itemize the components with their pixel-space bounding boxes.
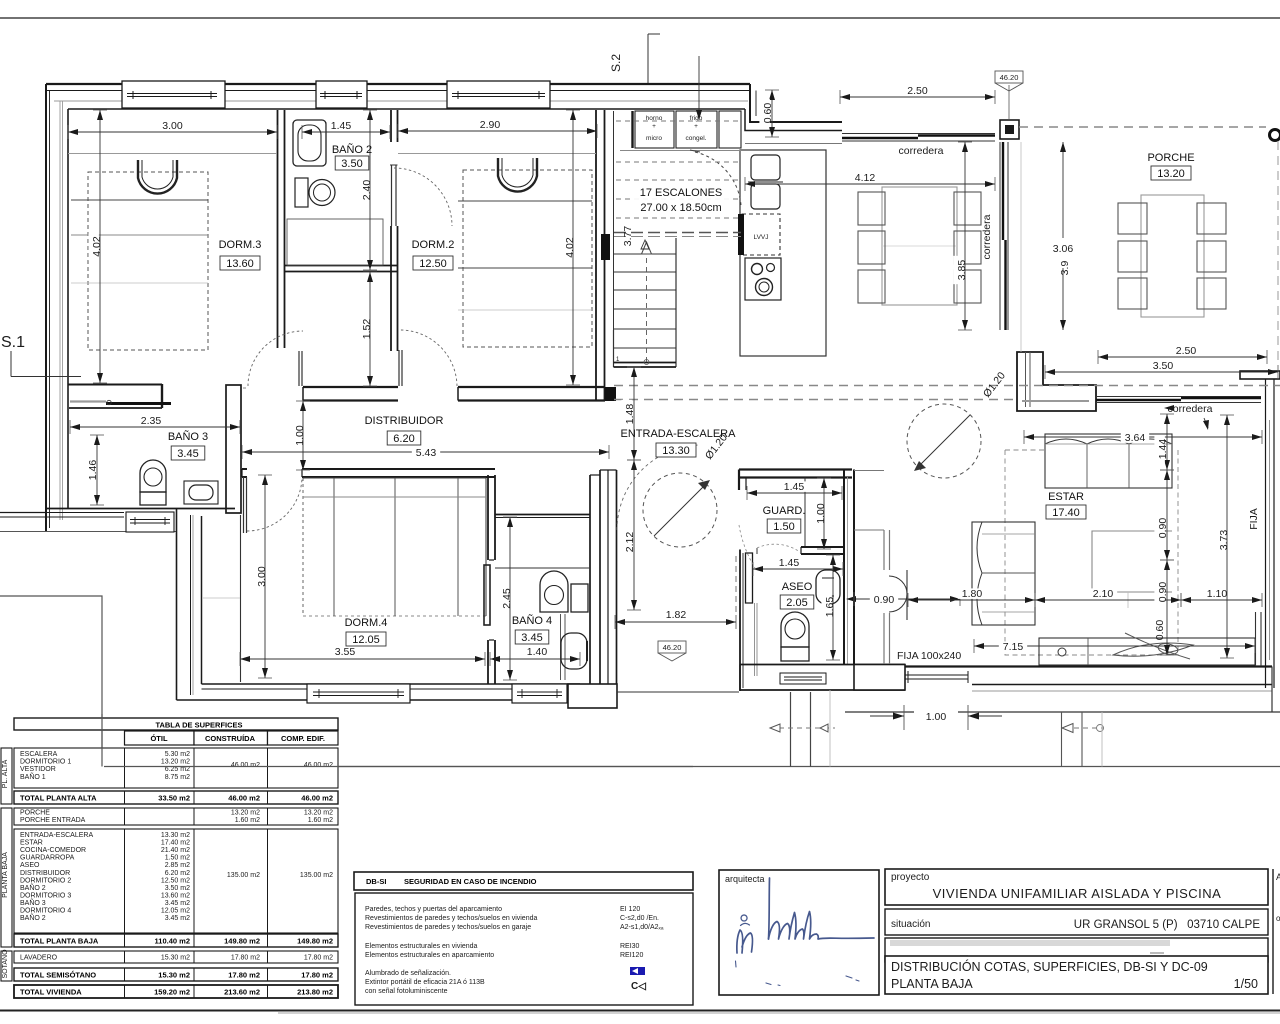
label diameter 1.20 hall [703, 432, 730, 462]
svg-text:SEGURIDAD EN CASO DE INCEN: SEGURIDAD EN CASO DE INCENDIO [404, 877, 537, 886]
headboard dorm3 [138, 160, 177, 194]
svg-text:SÓTANO: SÓTANO [0, 949, 9, 979]
dim 3.73 estar 3.73 [1215, 415, 1234, 658]
wall: aseo south + window [740, 665, 905, 691]
svg-text:DORM.3: DORM.3 [219, 239, 262, 251]
room label estar [1046, 491, 1086, 519]
dbsi blue icon extinguisher [631, 981, 646, 992]
svg-text:13.20 m2: 13.20 m2 [161, 759, 190, 766]
door arc hall big [617, 445, 755, 568]
svg-text:3.50 m2: 3.50 m2 [165, 885, 190, 892]
wall: bano3 south + exterior step [0, 509, 235, 532]
svg-text:13.30 m2: 13.30 m2 [161, 832, 190, 839]
dim 3.85 porch 3.85 [953, 142, 972, 330]
svg-text:CONSTRUÍDA: CONSTRUÍDA [205, 734, 256, 743]
toilet bano2 [295, 178, 335, 207]
entrance threshold [617, 691, 739, 693]
svg-text:46.00 m2: 46.00 m2 [231, 762, 260, 769]
titleblock proyecto box [885, 869, 1268, 905]
svg-text:Elementos estructurales en viv: Elementos estructurales en vivienda [365, 943, 478, 950]
svg-text:8.75 m2: 8.75 m2 [165, 774, 190, 781]
svg-text:DB-SI: DB-SI [366, 877, 386, 886]
svg-text:149.80 m2: 149.80 m2 [224, 937, 260, 946]
svg-text:2.12: 2.12 [624, 532, 636, 553]
dim 3.00 dorm3 width [68, 120, 277, 139]
svg-text:PORCHE ENTRADA: PORCHE ENTRADA [20, 817, 86, 824]
room label bano4 [512, 614, 552, 644]
door leaf+arc dorm3 [248, 331, 303, 386]
bed head line dorm2 [398, 153, 596, 155]
svg-text:LAVADERO: LAVADERO [20, 955, 58, 962]
svg-text:5.30 m2: 5.30 m2 [165, 751, 190, 758]
door leaf+arc dorm4 [244, 477, 303, 533]
dim 0.60 kitchen step 0.60 [759, 90, 779, 137]
dim 0.90 aseo door 0.90 [846, 592, 960, 606]
dim 2.50 porch gap [840, 85, 995, 104]
dim 3.50 estar top 3.50 [1045, 360, 1278, 379]
window W2 bano2 north [316, 81, 367, 108]
stairs: break line [614, 233, 741, 237]
partition hall/estar low wall [854, 530, 890, 664]
dim 3.06 porch [1043, 142, 1083, 330]
svg-text:TABLA DE SUPERFICES: TABLA DE SUPERFICES [155, 721, 242, 730]
svg-text:13.60 m2: 13.60 m2 [161, 892, 190, 899]
corredera bano3 pocket door leaf [70, 400, 171, 404]
dashed circle turn radius estar [907, 404, 981, 478]
svg-text:15.30 m2: 15.30 m2 [158, 971, 190, 980]
svg-text:S.2: S.2 [609, 54, 623, 72]
svg-text:17.80 m2: 17.80 m2 [304, 955, 333, 962]
table tabla de superficies frame [14, 718, 338, 730]
svg-text:DORMITORIO 3: DORMITORIO 3 [20, 892, 71, 899]
SE corner pillar estar [1256, 612, 1262, 666]
svg-text:17.80 m2: 17.80 m2 [228, 971, 260, 980]
door arc kitchen entry [690, 150, 741, 205]
dim 0.90 estar 0.90b [1154, 560, 1174, 655]
guard interior divider [804, 478, 806, 547]
svg-text:Revestimientos de paredes y te: Revestimientos de paredes y techos/suelo… [365, 924, 531, 931]
svg-text:0.60: 0.60 [762, 103, 774, 124]
door arc estar entry [889, 570, 907, 620]
room label bano2 [332, 143, 372, 170]
dim 1.45 bano2 width [302, 120, 390, 139]
ground section line across sheet [102, 766, 1280, 768]
svg-text:1.80: 1.80 [962, 588, 983, 600]
svg-text:6.20: 6.20 [393, 433, 414, 445]
table row porche rows [14, 808, 338, 825]
wall: corridor south wall mid (between dorm3 and dorm2 doors) [303, 387, 398, 401]
dim 2.50 estar top 2.50 [1098, 345, 1267, 364]
door leaf+arc dorm2 [399, 330, 457, 386]
svg-text:13.60: 13.60 [226, 258, 254, 270]
svg-text:3.00: 3.00 [256, 566, 268, 587]
svg-text:46.20: 46.20 [663, 643, 682, 652]
room label guard [763, 505, 806, 533]
corredera: estar north sliding [1096, 397, 1261, 403]
kitchen sink basins [748, 155, 783, 209]
svg-text:micro: micro [646, 135, 662, 142]
cabinet dark left edge [631, 111, 633, 148]
room label bano3 [168, 430, 208, 460]
svg-text:C◁: C◁ [631, 981, 646, 992]
svg-text:1.46: 1.46 [87, 460, 99, 481]
bathtub bano2 [293, 120, 326, 166]
window W1 dorm3 north [122, 81, 225, 108]
svg-text:DORMITORIO 2: DORMITORIO 2 [20, 877, 71, 884]
svg-text:1.45: 1.45 [331, 120, 352, 132]
svg-text:27.00 x 18.50cm: 27.00 x 18.50cm [640, 202, 721, 214]
svg-text:3.64: 3.64 [1125, 432, 1146, 444]
cabinet end [620, 111, 741, 151]
dim 2.12 hall 2.12 [621, 460, 641, 610]
svg-text:TOTAL PLANTA ALTA: TOTAL PLANTA ALTA [20, 794, 97, 803]
svg-text:+: + [652, 123, 656, 130]
svg-text:0.90: 0.90 [1157, 582, 1169, 603]
dim 5.43 corridor 5.43 [242, 445, 609, 459]
svg-text:2.40: 2.40 [361, 180, 373, 201]
toilet bano3 [140, 460, 166, 505]
door leaf+arc bano2 [390, 165, 452, 226]
svg-text:VESTIDOR: VESTIDOR [20, 766, 56, 773]
titleblock right cut strip [1273, 869, 1280, 994]
svg-text:FIJA 100x240: FIJA 100x240 [897, 650, 961, 662]
svg-text:17.40: 17.40 [1052, 507, 1080, 519]
table row total planta alta [14, 791, 338, 804]
svg-text:COMP. EDIF.: COMP. EDIF. [281, 734, 325, 743]
dishwasher LVVJ dashed [738, 214, 780, 255]
svg-text:2.90: 2.90 [480, 119, 501, 131]
dim 3.64 sofa 3.64 [1024, 430, 1262, 444]
svg-text:3.45: 3.45 [177, 448, 198, 460]
svg-text:BAÑO 3: BAÑO 3 [20, 898, 46, 907]
room label entrada [621, 428, 737, 457]
svg-text:EI 120: EI 120 [620, 906, 640, 913]
kitchen counter island [740, 144, 842, 357]
svg-text:GUARDARROPA: GUARDARROPA [20, 855, 75, 862]
svg-text:1.45: 1.45 [779, 557, 800, 569]
entry path below door [791, 690, 831, 767]
svg-text:2.45: 2.45 [501, 588, 513, 609]
svg-text:REI120: REI120 [620, 952, 643, 959]
wall: dorm3 south (pocket wall west part) [68, 384, 162, 408]
porch NE pillar ring [1270, 130, 1280, 141]
svg-text:46.00 m2: 46.00 m2 [304, 762, 333, 769]
entry dashed arrow [770, 724, 835, 732]
svg-text:ENTRADA-ESCALERA: ENTRADA-ESCALERA [20, 832, 93, 839]
svg-text:2.35: 2.35 [141, 415, 162, 427]
svg-text:1.10: 1.10 [1207, 588, 1228, 600]
shower tray bano2 [287, 219, 383, 265]
signature blue [736, 878, 875, 986]
chairs kitchen right [954, 192, 981, 303]
sheet bottom border line [0, 1011, 1280, 1014]
svg-text:12.05 m2: 12.05 m2 [161, 908, 190, 915]
toilet bano4 [540, 571, 588, 612]
svg-text:3.06: 3.06 [1053, 243, 1074, 255]
bed dorm3 [71, 172, 208, 350]
svg-text:7.15: 7.15 [1003, 641, 1024, 653]
svg-text:corredera: corredera [899, 145, 944, 157]
svg-text:PORCHE: PORCHE [1147, 152, 1194, 164]
partition dorm4/bano4 [488, 475, 495, 684]
svg-text:1.44: 1.44 [1157, 439, 1169, 460]
svg-text:DORMITORIO 1: DORMITORIO 1 [20, 759, 71, 766]
svg-text:DORM.4: DORM.4 [345, 617, 388, 629]
svg-text:1.52: 1.52 [361, 319, 373, 340]
svg-text:Revestimientos de paredes y te: Revestimientos de paredes y techos/suelo… [365, 915, 537, 922]
wall: SE corner below bano4 [568, 684, 617, 708]
coffee table estar [1092, 531, 1172, 608]
svg-text:1.45: 1.45 [784, 481, 805, 493]
svg-text:COCINA-COMEDOR: COCINA-COMEDOR [20, 847, 86, 854]
corredera label estar [1164, 403, 1213, 430]
svg-text:1.60 m2: 1.60 m2 [308, 817, 333, 824]
plant on bench [1113, 633, 1193, 659]
dim 1.40 bano4 1.40 [490, 646, 580, 666]
svg-text:ÓTIL: ÓTIL [150, 734, 167, 743]
wall: north exterior (outer leaf) [46, 84, 750, 109]
window W3 dorm2 north [447, 81, 550, 108]
bed head line dorm3 [68, 153, 277, 155]
svg-text:3.45 m2: 3.45 m2 [165, 900, 190, 907]
svg-text:2.50: 2.50 [907, 85, 928, 97]
dbsi content box [355, 893, 693, 1005]
table side strip PLANTA BAJA [1, 808, 12, 947]
dbsi title box [354, 872, 693, 890]
table row total planta baja [14, 934, 338, 947]
bed dorm4 [303, 478, 490, 625]
partition bano2/dorm2 [391, 110, 398, 351]
svg-text:159.20 m2: 159.20 m2 [154, 988, 190, 997]
wall: guardarropa/aseo east [844, 470, 884, 665]
svg-text:2.10: 2.10 [1093, 588, 1114, 600]
svg-text:17.40 m2: 17.40 m2 [161, 840, 190, 847]
dashed floor-above line 2 [614, 399, 1017, 401]
dashed circle turn radius hall [643, 473, 717, 547]
dim 3.77 rotated [622, 226, 649, 249]
room label dorm3 [219, 239, 262, 270]
room label dorm4 [345, 617, 388, 646]
svg-text:1.48: 1.48 [624, 404, 636, 425]
cabinet frigo+congel [676, 111, 717, 148]
svg-text:BAÑO 2: BAÑO 2 [20, 883, 46, 892]
svg-text:4.02: 4.02 [564, 237, 576, 258]
dim 1.00 guard 1.00 [812, 478, 831, 549]
dim 1.82 hall 1.82 [615, 609, 736, 629]
svg-text:13.20: 13.20 [1157, 168, 1185, 180]
wall: dorm2 east / stair west [596, 110, 605, 401]
stairs: side rails and bottom [614, 238, 677, 367]
svg-text:A: A [1276, 872, 1280, 882]
svg-text:Elementos estructurales en apa: Elementos estructurales en aparcamiento [365, 952, 494, 959]
porch steps dashed arrow [1062, 724, 1104, 733]
svg-text:3.45 m2: 3.45 m2 [165, 915, 190, 922]
dashed estar boundary rectangle [1005, 450, 1178, 655]
svg-text:proyecto: proyecto [891, 872, 930, 883]
chairs porch right [1197, 203, 1226, 309]
wall: bano2 south [285, 266, 398, 272]
sideboard bench estar south [1039, 638, 1255, 665]
wall: bano4 north [495, 515, 590, 518]
wall: bano4/hall east band [590, 470, 617, 692]
window bano3 south sill [126, 512, 174, 532]
svg-text:13.30: 13.30 [662, 445, 690, 457]
dim 1.65 aseo 1.65 [821, 555, 840, 660]
toilet aseo [781, 612, 809, 661]
svg-text:1.00: 1.00 [926, 711, 947, 723]
wall: bano3 east [226, 385, 246, 513]
table row planta baja detail [14, 829, 338, 933]
table row pl alta detail [14, 748, 338, 788]
svg-text:TOTAL PLANTA BAJA: TOTAL PLANTA BAJA [20, 937, 99, 946]
dim 2.40 bano2 height [358, 110, 377, 270]
dim 1.46 bano3 height [84, 435, 104, 505]
window bano4 south sill 2 [512, 684, 567, 703]
dim 1.48 hall 1.48 [621, 367, 641, 460]
stairs: walk line with arrow [642, 242, 652, 365]
svg-text:21.40 m2: 21.40 m2 [161, 847, 190, 854]
section strike line over table [102, 714, 693, 767]
dim 3.55 dorm4 3.55 [240, 646, 485, 666]
room label aseo [780, 581, 814, 609]
svg-text:corredera: corredera [1168, 403, 1213, 415]
svg-text:BAÑO 4: BAÑO 4 [512, 614, 552, 627]
svg-text:Paredes, techos y puertas del: Paredes, techos y puertas del aparcamien… [365, 906, 502, 913]
svg-text:0.60: 0.60 [1154, 620, 1166, 641]
table row total vivienda [14, 985, 338, 998]
FIJA label rotated east [1248, 508, 1260, 530]
svg-text:ESTAR: ESTAR [1048, 491, 1084, 503]
svg-text:BAÑO 2: BAÑO 2 [332, 143, 372, 156]
svg-text:congel.: congel. [686, 135, 707, 142]
svg-text:1.60 m2: 1.60 m2 [235, 817, 260, 824]
svg-text:DISTRIBUIDOR: DISTRIBUIDOR [20, 870, 70, 877]
svg-text:LVVJ: LVVJ [753, 234, 768, 241]
table side strip PL.ALTA [1, 748, 12, 804]
svg-text:149.80 m2: 149.80 m2 [297, 937, 333, 946]
svg-text:1.65: 1.65 [824, 597, 836, 618]
svg-text:TOTAL SEMISÓTANO: TOTAL SEMISÓTANO [20, 971, 96, 980]
svg-text:6.20 m2: 6.20 m2 [165, 870, 190, 877]
room label porche [1147, 152, 1194, 180]
titleblock situacion box [885, 909, 1268, 935]
hob vitro [745, 258, 781, 300]
svg-text:PLANTA BAJA: PLANTA BAJA [2, 852, 9, 898]
svg-text:BAÑO 3: BAÑO 3 [168, 430, 208, 443]
dim 1.52 pass 1.52 [358, 272, 377, 386]
svg-text:46.00 m2: 46.00 m2 [228, 794, 260, 803]
svg-text:3.50: 3.50 [1153, 360, 1174, 372]
svg-text:3.85: 3.85 [956, 260, 968, 281]
dbsi blue icon light [630, 967, 645, 975]
svg-text:2.05: 2.05 [786, 597, 807, 609]
svg-text:o: o [1276, 914, 1280, 923]
svg-text:1.82: 1.82 [666, 609, 687, 621]
svg-text:ENTRADA-ESCALERA: ENTRADA-ESCALERA [621, 428, 737, 440]
wall: estar south band [905, 667, 1272, 692]
svg-text:3.9: 3.9 [1059, 261, 1071, 276]
dim 0.60 bench [1154, 620, 1166, 641]
headboard dorm2 [498, 158, 537, 192]
dim 1.00 corridor 1.00 [291, 401, 310, 470]
white patch for stair text [630, 182, 732, 216]
svg-text:UR GRANSOL 5 (P) 03710 CALPE: UR GRANSOL 5 (P) 03710 CALPE [1074, 919, 1261, 931]
svg-text:5.43: 5.43 [416, 447, 437, 459]
svg-text:Extintor portátil de eficacia: Extintor portátil de eficacia 21A ó 113B [365, 979, 485, 986]
svg-text:3.77: 3.77 [622, 226, 634, 247]
svg-text:BAÑO 1: BAÑO 1 [20, 772, 46, 781]
svg-text:13.20 m2: 13.20 m2 [304, 810, 333, 817]
svg-text:0.90: 0.90 [874, 594, 895, 606]
titleblock empty box [885, 938, 1268, 962]
dim 1.80 estar 1.80 [908, 588, 1035, 607]
svg-text:con señal fotoluminiscente: con señal fotoluminiscente [365, 988, 448, 995]
leader arrow kitchen step [696, 56, 702, 120]
svg-text:12.50: 12.50 [419, 258, 447, 270]
svg-text:+: + [694, 123, 698, 130]
S.1 section label [1, 334, 81, 377]
svg-text:17.80 m2: 17.80 m2 [301, 971, 333, 980]
svg-text:DORMITORIO 4: DORMITORIO 4 [20, 908, 71, 915]
chairs kitchen left [858, 192, 885, 303]
svg-text:17.80 m2: 17.80 m2 [231, 955, 260, 962]
room label distribuidor [365, 415, 444, 445]
svg-text:15.30 m2: 15.30 m2 [161, 955, 190, 962]
svg-text:3.50: 3.50 [341, 158, 362, 170]
svg-text:Alumbrado de señalización.: Alumbrado de señalización. [365, 970, 451, 977]
room label dorm2 [412, 239, 455, 270]
porch steps verticals SE [1062, 712, 1103, 767]
svg-text:13.20 m2: 13.20 m2 [231, 810, 260, 817]
dim 1.44 estar 1.44 [1154, 414, 1174, 470]
level flag 46.20 top [995, 71, 1023, 120]
svg-text:46.00 m2: 46.00 m2 [301, 794, 333, 803]
chairs porch left [1118, 203, 1147, 309]
label diameter 1.20 estar [981, 370, 1008, 400]
svg-text:PL. ALTA: PL. ALTA [2, 759, 9, 788]
sink bano4 [561, 633, 587, 669]
svg-text:TOTAL VIVIENDA: TOTAL VIVIENDA [20, 988, 82, 997]
svg-text:VIVIENDA UNIFAMILIAR AISLADA Y: VIVIENDA UNIFAMILIAR AISLADA Y PISCINA [933, 886, 1222, 901]
sink aseo [816, 570, 840, 604]
sink bano3 [184, 481, 218, 504]
sheet top border line [0, 17, 1280, 19]
svg-text:GUARD.: GUARD. [763, 505, 806, 517]
table row total semisotano [14, 968, 338, 981]
svg-text:135.00 m2: 135.00 m2 [300, 872, 333, 879]
dashed floor-above line 1 [614, 385, 1280, 387]
wall: dorm4 west exterior [177, 509, 202, 700]
S.2 section label [609, 34, 660, 83]
dim 4.02 dorm2 height [561, 110, 580, 385]
dim 7.15 estar 7.15 [974, 639, 1255, 653]
dim 2.90 dorm2 width [398, 119, 597, 138]
wall: distribuidor south / dorm4 north [242, 469, 495, 477]
corredera: kitchen north sliding door [842, 134, 995, 142]
svg-text:17 ESCALONES: 17 ESCALONES [640, 187, 723, 199]
wall: estar east with FIJA window [1266, 379, 1275, 688]
svg-text:REI30: REI30 [620, 943, 640, 950]
dashed roof overhang north-east [1019, 127, 1278, 360]
cabinet horno+micro [635, 111, 674, 148]
wall: west exterior [46, 84, 68, 532]
svg-text:4.12: 4.12 [855, 172, 876, 184]
svg-text:46.20: 46.20 [1000, 73, 1019, 82]
svg-text:BAÑO 2: BAÑO 2 [20, 913, 46, 922]
table column headers [125, 731, 339, 745]
door leaf+arc guard [757, 544, 800, 554]
dim 4.12 kitchen 4.12 [745, 172, 995, 191]
